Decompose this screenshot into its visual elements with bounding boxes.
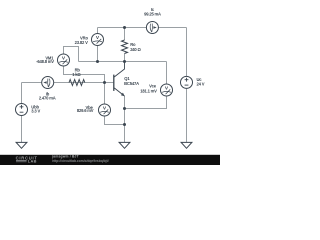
svg-text:3.3 V: 3.3 V — [31, 109, 40, 114]
ammeter Ic — [146, 22, 158, 34]
watermark CircuitLab logo — [16, 156, 38, 164]
wire Vbe top lead — [104, 83, 106, 105]
node junction top (Ro top) — [123, 26, 126, 29]
voltmeter Vce label — [140, 84, 157, 94]
wire top rail — [98, 27, 187, 29]
watermark text — [51, 154, 109, 162]
resistor Rb value label 1 kohm — [72, 68, 81, 77]
wire right rail upper (to Uc top) — [186, 28, 188, 77]
svg-text:23.82 V: 23.82 V — [75, 40, 88, 45]
voltmeter Vbe — [99, 104, 111, 116]
ammeter Ic label — [144, 7, 161, 16]
svg-text:-648.8 mV: -648.8 mV — [36, 59, 54, 64]
node junction Ro bottom — [123, 60, 126, 63]
node junction emitter upper — [123, 107, 126, 110]
ground under Uc — [181, 142, 192, 148]
ground under emitter — [119, 142, 130, 148]
voltmeter VRo label — [75, 36, 89, 45]
wire Ubb bottom lead — [21, 115, 23, 142]
wire base rail — [22, 82, 114, 84]
voltmeter VM1 label — [36, 55, 54, 64]
ground under Ubb — [16, 142, 27, 148]
voltmeter VM1 — [58, 54, 70, 66]
wire VM1 top lead — [64, 47, 79, 62]
wire Uc bottom lead — [186, 89, 188, 143]
transistor Q1 label — [124, 76, 139, 86]
svg-text:1 kΩ: 1 kΩ — [72, 72, 81, 77]
voltmeter VRo — [92, 34, 104, 46]
wire Vbe bottom lead — [105, 116, 125, 125]
svg-text:2.470 mA: 2.470 mA — [39, 96, 56, 101]
svg-text:240 Ω: 240 Ω — [130, 47, 141, 52]
node junction VRo bottom — [96, 60, 99, 63]
voltmeter Vbe label — [77, 105, 94, 113]
svg-text:http://circuitlab.com/c/dqe9vs: http://circuitlab.com/c/dqe9vsbq/bjt/ — [52, 159, 109, 163]
voltmeter Vce — [161, 84, 173, 96]
wire Vce bottom lead — [125, 96, 167, 109]
wire Ro top lead — [124, 28, 126, 41]
node junction emitter lower — [123, 123, 126, 126]
svg-text:99.25 mA: 99.25 mA — [144, 11, 161, 16]
transistor Q1 — [114, 62, 125, 97]
svg-text:jamsgwm / BJT: jamsgwm / BJT — [51, 154, 79, 158]
svg-text:BC547A: BC547A — [124, 81, 139, 86]
resistor Ro — [122, 40, 128, 54]
wire middle rail — [79, 61, 167, 63]
resistor Rb — [69, 80, 85, 86]
watermark bar — [0, 155, 220, 165]
wire Ro bottom lead — [124, 54, 126, 62]
wire VM1 bottom lead — [64, 66, 105, 83]
voltage source Ubb — [16, 104, 28, 116]
voltage source Uc label — [197, 77, 205, 86]
ammeter Ib label — [39, 91, 56, 100]
svg-text:829.6 mV: 829.6 mV — [77, 108, 94, 113]
wire emitter rail — [124, 96, 126, 142]
resistor Ro value label 240 ohm — [130, 42, 141, 52]
ammeter Ib — [42, 77, 54, 89]
node junction base — [103, 81, 106, 84]
wire VRo top lead — [97, 28, 99, 34]
voltage source Uc — [181, 76, 193, 88]
wire VRo bottom lead — [97, 45, 99, 61]
wire Vce top lead — [166, 62, 168, 85]
voltage source Ubb label — [31, 104, 40, 113]
svg-text:181.1 mV: 181.1 mV — [140, 89, 157, 94]
svg-text:LAB: LAB — [28, 159, 37, 164]
wire Ubb top lead — [21, 83, 23, 104]
svg-text:24 V: 24 V — [197, 82, 205, 87]
